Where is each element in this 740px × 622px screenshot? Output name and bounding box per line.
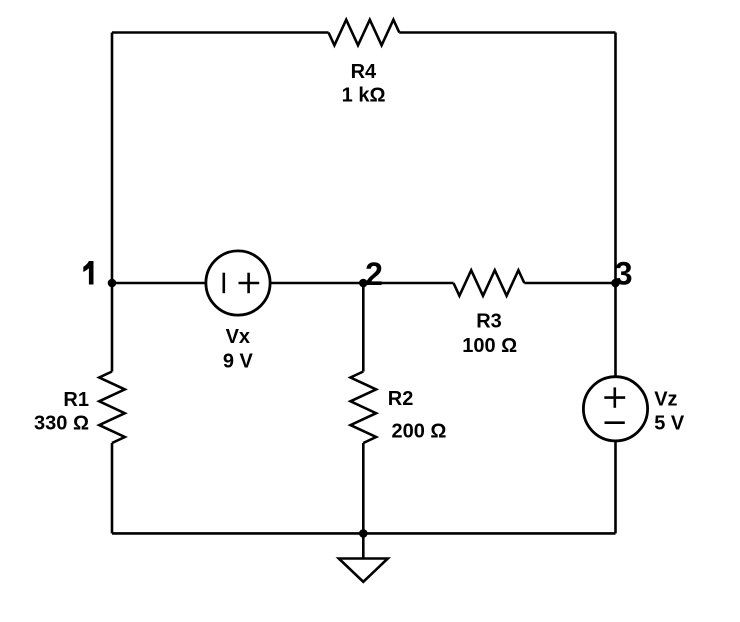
svg-text:200 Ω: 200 Ω: [392, 421, 447, 443]
svg-text:R1: R1: [63, 389, 89, 411]
svg-text:100 Ω: 100 Ω: [462, 335, 517, 357]
svg-text:1 kΩ: 1 kΩ: [342, 84, 386, 106]
svg-text:Vz: Vz: [654, 388, 677, 410]
svg-text:R3: R3: [476, 311, 502, 333]
svg-text:R2: R2: [388, 388, 414, 410]
svg-text:3: 3: [615, 256, 633, 292]
svg-text:2: 2: [365, 256, 383, 292]
svg-text:9 V: 9 V: [223, 351, 254, 373]
svg-text:330 Ω: 330 Ω: [34, 413, 89, 435]
svg-text:5 V: 5 V: [654, 413, 685, 435]
svg-text:Vx: Vx: [226, 326, 250, 348]
svg-text:R4: R4: [351, 61, 377, 83]
